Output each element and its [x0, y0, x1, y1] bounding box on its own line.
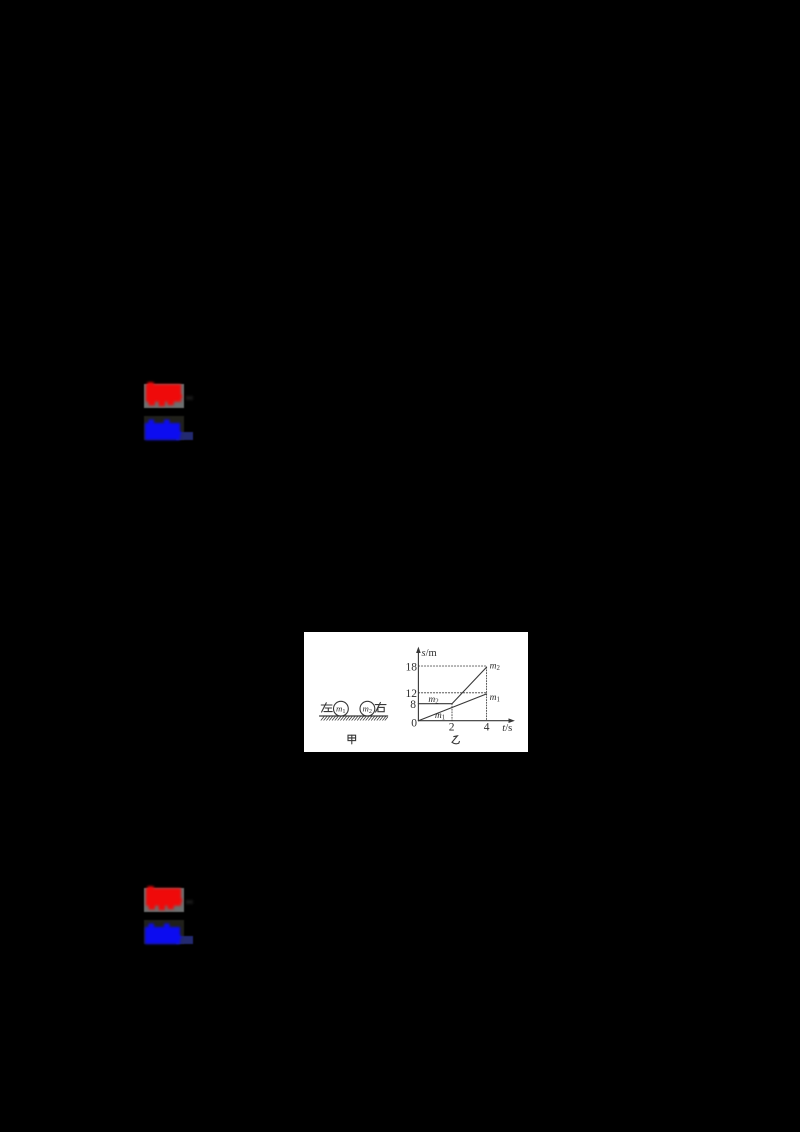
svg-text:2: 2 [449, 721, 455, 733]
乙 graph: dotted vertical at t=4 [486, 667, 488, 721]
analysis tag box 2 (dark box) [144, 920, 184, 944]
analysis tag blue text blob 1 [138, 412, 192, 450]
乙 graph: x axis [418, 719, 509, 721]
analysis tag navy rect 2 [176, 936, 193, 945]
甲: character 左 (left) [321, 702, 332, 711]
answer tag shadow mark 2 [186, 900, 193, 905]
svg-text:4: 4 [484, 721, 490, 733]
figure panel (white box with diagram 甲 and graph 乙) [304, 632, 528, 752]
answer tag box 2 (grey box with red label) [144, 888, 184, 912]
乙 graph: dotted level 12 [418, 691, 486, 693]
svg-text:18: 18 [406, 661, 418, 673]
svg-text:t/s: t/s [502, 723, 512, 734]
乙 graph: x axis arrowhead [509, 718, 515, 723]
乙 graph: dotted level 18 [418, 665, 486, 667]
analysis tag box 1 (dark box) [144, 416, 184, 440]
svg-text:8: 8 [410, 698, 416, 710]
analysis tag blue text blob 2 [138, 916, 192, 954]
乙 graph: curve m1 (line from origin to (4,12)) [418, 694, 486, 721]
answer tag red text blob 2 [138, 881, 192, 919]
svg-text:s/m: s/m [422, 648, 437, 659]
answer tag box 1 (grey box with red label) [144, 384, 184, 408]
甲: ball m2 circle [360, 701, 375, 716]
乙 graph: y axis [417, 651, 419, 720]
answer tag shadow mark 1 [186, 396, 193, 401]
answer tag red text blob 1 [138, 377, 192, 415]
甲: ball m1 circle [334, 701, 349, 716]
analysis tag navy rect 1 [176, 432, 193, 441]
甲: caption character 甲 [348, 735, 356, 744]
乙 graph: curve m2 (flat at 8 then rising to (4,18)) [418, 667, 486, 704]
乙 graph: y axis arrowhead [416, 646, 421, 652]
甲: ground hatching [321, 716, 388, 720]
white background of figure [304, 632, 528, 752]
svg-text:0: 0 [411, 717, 417, 729]
乙: caption character 乙 [452, 736, 459, 744]
甲: character 右 (right) [375, 702, 386, 712]
乙 graph: dotted vertical at t=2 [451, 703, 453, 720]
甲: ground line [320, 715, 388, 717]
